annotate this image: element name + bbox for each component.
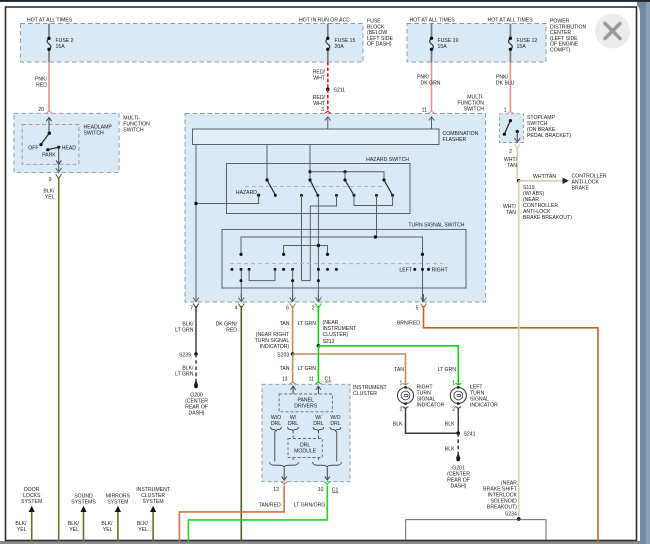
hazard contacts bbox=[300, 194, 303, 197]
svg-text:BLK: BLK bbox=[445, 421, 455, 427]
multi-function switch (center) box bbox=[185, 114, 486, 303]
svg-text:DK GRN: DK GRN bbox=[421, 80, 441, 86]
wire contact 301.5 down bbox=[301, 195, 303, 280]
wire BLK left indicator to S241 bbox=[457, 409, 459, 434]
svg-text:HAZARD SWITCH: HAZARD SWITCH bbox=[366, 157, 409, 163]
wire contact 336.5 jog bbox=[310, 195, 336, 280]
wire PNK/DK GRN bbox=[431, 62, 433, 111]
svg-text:SYSTEMS: SYSTEMS bbox=[71, 499, 96, 505]
fuse F19 bbox=[430, 24, 434, 63]
TSS contact dots row bbox=[230, 268, 233, 271]
lamp left turn signal indicator bbox=[450, 388, 466, 404]
svg-text:INDICATOR): INDICATOR) bbox=[260, 344, 290, 350]
svg-text:11: 11 bbox=[309, 377, 314, 383]
hazard switch pole 3 bbox=[344, 172, 346, 180]
wire RED/WHT lower bbox=[327, 89, 329, 111]
splice S119 bbox=[517, 179, 521, 183]
fuse block box (dashed) bbox=[21, 24, 364, 63]
wire contact 317.8 down bbox=[317, 196, 319, 302]
svg-text:HOT AT ALL TIMES: HOT AT ALL TIMES bbox=[410, 17, 456, 23]
TSS dashed row bbox=[230, 263, 443, 265]
arrow into panel drivers left bbox=[292, 386, 294, 394]
pin 7 connector bbox=[195, 294, 197, 302]
svg-text:12: 12 bbox=[273, 487, 279, 493]
wire contact 376.5 down bbox=[376, 195, 378, 237]
label FUSE BLOCK location bbox=[367, 19, 393, 48]
wire contact 354-392 jog bbox=[354, 195, 393, 205]
svg-text:DRIVERS: DRIVERS bbox=[294, 404, 317, 410]
hazard switch pole 2 bbox=[308, 178, 311, 181]
svg-text:SYSTEM: SYSTEM bbox=[21, 499, 42, 505]
switch blade to OFF bbox=[41, 133, 49, 144]
wire LT GRN/ORG from pin10 bbox=[188, 486, 327, 541]
svg-text:LT GRN/ORG: LT GRN/ORG bbox=[294, 502, 326, 508]
svg-text:DASH): DASH) bbox=[451, 483, 467, 489]
svg-text:OF DASH): OF DASH) bbox=[367, 42, 392, 48]
svg-text:SYSTEM: SYSTEM bbox=[143, 499, 164, 505]
splice S212 bbox=[317, 344, 321, 348]
ground G200 bbox=[194, 380, 199, 386]
svg-text:TAN: TAN bbox=[394, 367, 404, 373]
multi-function switch (left) box bbox=[14, 113, 119, 172]
close button bbox=[595, 14, 630, 49]
svg-text:1: 1 bbox=[399, 380, 402, 386]
right blue-gray band bbox=[637, 0, 650, 544]
svg-text:YEL: YEL bbox=[138, 527, 148, 533]
braces upper bbox=[271, 427, 342, 431]
pin 10 connector bbox=[324, 482, 330, 484]
fuse F15 bbox=[326, 24, 330, 63]
wire BLK/YEL down left bbox=[58, 177, 60, 541]
svg-text:9: 9 bbox=[49, 177, 52, 183]
splice S239 bbox=[194, 352, 198, 356]
headlamp switch internals bbox=[48, 118, 50, 134]
label POWER DISTRIBUTION CENTER bbox=[550, 19, 587, 54]
svg-text:CLUSTER): CLUSTER) bbox=[323, 332, 349, 338]
pin 5 connector bbox=[423, 294, 425, 302]
svg-text:7: 7 bbox=[190, 306, 193, 312]
svg-text:LT GRN: LT GRN bbox=[298, 366, 317, 372]
wire LT GRN S212 to pin11 bbox=[317, 346, 319, 382]
svg-text:RED: RED bbox=[226, 328, 237, 334]
hazard switch pole 1 bbox=[265, 178, 268, 181]
wire TAN/RED from pin12 bbox=[179, 486, 284, 541]
splice S241 bbox=[456, 431, 460, 435]
svg-text:HOT AT ALL TIMES: HOT AT ALL TIMES bbox=[488, 17, 534, 23]
svg-text:WHT: WHT bbox=[313, 76, 326, 82]
wire BLK right indicator to S241 bbox=[406, 409, 459, 434]
wire LT GRN pin2 to S212 bbox=[317, 306, 319, 346]
arrow to pin 10 bbox=[326, 468, 328, 481]
box brake shift interlock bbox=[406, 520, 546, 541]
svg-text:LT GRN: LT GRN bbox=[175, 328, 194, 334]
stoplamp switch box bbox=[499, 114, 523, 143]
svg-text:4: 4 bbox=[235, 306, 238, 312]
svg-text:BRAKE: BRAKE bbox=[572, 185, 590, 191]
wire TAN S203 to pin13 bbox=[292, 354, 294, 382]
svg-text:S211: S211 bbox=[334, 88, 346, 94]
arrow into panel drivers right bbox=[317, 386, 319, 394]
hazard switch pole 4 bbox=[382, 178, 385, 181]
wire HEAD down bbox=[58, 147, 60, 164]
svg-text:YEL: YEL bbox=[69, 527, 79, 533]
wire hazard common branch bbox=[196, 195, 259, 203]
power distribution center box (dashed) bbox=[407, 24, 546, 63]
svg-text:2: 2 bbox=[452, 407, 455, 413]
TSS top rail 1 bbox=[241, 237, 423, 302]
pin 3 connector bbox=[325, 111, 331, 113]
headlamp switch inner box bbox=[22, 124, 79, 164]
hazard switch box bbox=[227, 164, 411, 214]
fuse F12 bbox=[509, 24, 513, 63]
dashed wires out of DRL module bbox=[292, 458, 294, 462]
pin 2 connector bbox=[317, 294, 319, 302]
lamp right turn signal indicator bbox=[398, 388, 414, 404]
fuse F2 bbox=[47, 24, 51, 63]
svg-text:DRL: DRL bbox=[288, 421, 298, 427]
svg-text:YEL: YEL bbox=[45, 195, 55, 201]
svg-text:BRAKE BREAKOUT): BRAKE BREAKOUT) bbox=[523, 215, 572, 221]
svg-text:TAN: TAN bbox=[280, 366, 290, 372]
wire PNK/RED bbox=[48, 62, 50, 111]
DRL module box bbox=[288, 439, 322, 458]
pin 13 connector bbox=[290, 382, 296, 384]
PARK contact bbox=[46, 148, 49, 151]
svg-text:LT GRN: LT GRN bbox=[438, 367, 457, 373]
svg-text:15A: 15A bbox=[438, 44, 448, 50]
svg-text:BLK: BLK bbox=[393, 421, 403, 427]
svg-text:13: 13 bbox=[282, 377, 288, 383]
wire BLK/LT GRN pin7 to S239 bbox=[195, 306, 197, 354]
svg-text:FLASHER: FLASHER bbox=[443, 137, 467, 143]
svg-text:5: 5 bbox=[416, 306, 419, 312]
svg-text:C1: C1 bbox=[332, 487, 339, 493]
svg-text:TURN SIGNAL SWITCH: TURN SIGNAL SWITCH bbox=[408, 223, 464, 229]
svg-text:2: 2 bbox=[312, 306, 315, 312]
ground G201 bbox=[456, 453, 461, 459]
svg-text:INDICATOR: INDICATOR bbox=[470, 402, 498, 408]
wire W/O right vertical bbox=[336, 431, 338, 462]
svg-text:S203: S203 bbox=[277, 352, 289, 358]
svg-text:INDICATOR: INDICATOR bbox=[417, 402, 445, 408]
svg-text:DK BLU: DK BLU bbox=[496, 80, 515, 86]
arrow to pin 12 bbox=[283, 468, 285, 481]
svg-text:HEAD: HEAD bbox=[62, 145, 77, 151]
wire pin3 to flasher bbox=[327, 117, 329, 129]
svg-text:PEDAL BRACKET): PEDAL BRACKET) bbox=[527, 133, 571, 139]
svg-text:RED: RED bbox=[36, 83, 47, 89]
svg-text:MODULE: MODULE bbox=[294, 448, 317, 454]
svg-text:COMPT): COMPT) bbox=[550, 48, 571, 54]
pin 12 connector bbox=[281, 482, 287, 484]
TSS top rail 2 bbox=[284, 246, 328, 255]
svg-text:TAN: TAN bbox=[280, 321, 290, 327]
svg-text:DRL: DRL bbox=[330, 421, 340, 427]
splice S234 bbox=[517, 517, 521, 521]
wire flasher to pin7 rail bbox=[195, 145, 197, 303]
svg-text:S212: S212 bbox=[323, 339, 335, 345]
svg-text:S241: S241 bbox=[464, 432, 476, 438]
svg-text:BLK: BLK bbox=[445, 446, 455, 452]
wire WHT/TAN stoplamp to S119 bbox=[517, 148, 518, 181]
wire WHT/TAN S119 down to S234 bbox=[518, 181, 520, 519]
splice S203 bbox=[291, 352, 295, 356]
svg-text:OFF: OFF bbox=[28, 145, 38, 151]
svg-text:TAN: TAN bbox=[507, 163, 517, 169]
svg-text:20: 20 bbox=[38, 107, 44, 113]
wire TAN pin6 to S203 bbox=[292, 306, 294, 354]
wire flasher to hazard pivot1 bbox=[266, 145, 268, 181]
svg-text:BRN/RED: BRN/RED bbox=[397, 320, 420, 326]
wire flasher to hazard junction bbox=[309, 145, 311, 181]
pin 11 connector bbox=[429, 111, 435, 113]
svg-text:YEL: YEL bbox=[103, 527, 113, 533]
svg-text:RIGHT: RIGHT bbox=[432, 268, 449, 274]
svg-text:LT GRN: LT GRN bbox=[298, 321, 317, 327]
bottom gray bar bbox=[0, 541, 638, 544]
dashed wires into DRL module bbox=[292, 431, 294, 439]
svg-text:DRL: DRL bbox=[271, 421, 281, 427]
svg-text:SWITCH: SWITCH bbox=[123, 128, 144, 134]
pin 6 connector bbox=[292, 294, 294, 302]
svg-text:15A: 15A bbox=[517, 44, 527, 50]
svg-text:C1: C1 bbox=[325, 377, 332, 383]
svg-text:HAZARD: HAZARD bbox=[236, 190, 257, 196]
svg-text:WHT/TAN: WHT/TAN bbox=[533, 174, 556, 180]
svg-text:DRL: DRL bbox=[313, 421, 323, 427]
wire BLK/LT GRN S239 to G200 bbox=[195, 354, 197, 383]
svg-text:2: 2 bbox=[399, 407, 402, 413]
wire DK GRN/RED pin4 down bbox=[240, 306, 242, 541]
svg-text:TAN/RED: TAN/RED bbox=[259, 502, 281, 508]
svg-text:SWITCH: SWITCH bbox=[84, 131, 105, 137]
svg-text:3: 3 bbox=[321, 107, 324, 113]
svg-text:2: 2 bbox=[509, 149, 512, 155]
pin 4 connector bbox=[240, 294, 242, 302]
wire BLK S241 to G201 bbox=[457, 433, 459, 456]
wire TAN S203 to right indicator bbox=[293, 354, 406, 385]
wire W/O left vertical bbox=[274, 431, 276, 462]
svg-text:6: 6 bbox=[286, 306, 289, 312]
svg-text:11: 11 bbox=[422, 107, 427, 113]
turn signal switch box bbox=[222, 229, 466, 288]
svg-text:1: 1 bbox=[504, 107, 507, 113]
braces lower bbox=[270, 462, 342, 467]
svg-text:HOT IN RUN OR ACC: HOT IN RUN OR ACC bbox=[299, 17, 350, 23]
top navy bar bbox=[0, 0, 650, 2]
TSS bottom links bbox=[240, 269, 242, 302]
pin 2 connector (stoplamp) bbox=[516, 135, 518, 143]
wire WHT/TAN to controller bbox=[519, 180, 563, 182]
wire LT GRN S212 to left indicator bbox=[318, 346, 458, 385]
svg-text:YEL: YEL bbox=[17, 527, 27, 533]
svg-text:SYSTEM: SYSTEM bbox=[107, 499, 128, 505]
wire RED/WHT upper bbox=[327, 62, 329, 89]
svg-text:LEFT: LEFT bbox=[399, 268, 412, 274]
svg-text:1: 1 bbox=[452, 380, 455, 386]
HEAD contact bbox=[57, 146, 60, 149]
svg-text:S234: S234 bbox=[505, 511, 517, 517]
svg-text:S239: S239 bbox=[179, 352, 191, 358]
svg-text:PARK: PARK bbox=[42, 153, 56, 159]
svg-text:BREAKOUT): BREAKOUT) bbox=[487, 504, 517, 510]
stoplamp switch internals bbox=[509, 119, 512, 122]
svg-text:CLUSTER: CLUSTER bbox=[353, 391, 377, 397]
splice S211 bbox=[326, 88, 330, 92]
svg-text:TAN: TAN bbox=[506, 210, 516, 216]
svg-text:LT GRN: LT GRN bbox=[175, 372, 194, 378]
hazard dashed row bbox=[245, 186, 384, 188]
instrument cluster box bbox=[262, 384, 350, 481]
wire BRN/RED pin5 down-right bbox=[424, 306, 599, 541]
pin 1 connector (stoplamp) bbox=[507, 111, 513, 113]
pin 9 connector bbox=[58, 165, 60, 173]
hazard top rail bbox=[308, 170, 311, 173]
svg-text:15A: 15A bbox=[56, 44, 66, 50]
pin 11 connector bbox=[315, 382, 321, 384]
svg-text:SWITCH: SWITCH bbox=[464, 107, 485, 113]
combination flasher box bbox=[193, 129, 440, 145]
wire PNK/DK BLU bbox=[509, 62, 511, 111]
panel drivers box bbox=[279, 394, 332, 412]
svg-text:10: 10 bbox=[318, 487, 324, 493]
svg-text:DASH): DASH) bbox=[189, 410, 205, 416]
wire pin11 to flasher bbox=[431, 117, 433, 129]
svg-text:20A: 20A bbox=[335, 44, 345, 50]
svg-text:HOT AT ALL TIMES: HOT AT ALL TIMES bbox=[27, 17, 73, 23]
